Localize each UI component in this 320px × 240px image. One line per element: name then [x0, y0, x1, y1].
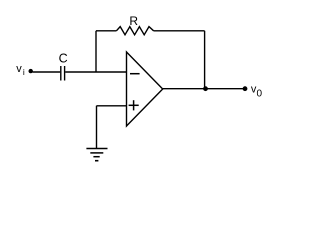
ground [86, 148, 107, 150]
node feedback junction [203, 86, 208, 91]
wire non-inverting input [97, 105, 127, 107]
wire capacitor to inverting input [65, 71, 126, 73]
wire feedback top left segment [96, 30, 116, 32]
op-amp U1 triangle [127, 52, 163, 126]
wire feedback left vertical [95, 31, 97, 72]
svg-text:i: i [23, 67, 25, 77]
wire feedback right vertical [204, 31, 206, 89]
wire to ground [96, 106, 98, 149]
wire output [163, 88, 245, 90]
svg-text:C: C [59, 52, 68, 66]
node vi input terminal [29, 69, 33, 73]
op-amp inverting pin minus sign [130, 73, 140, 75]
svg-text:R: R [129, 14, 138, 28]
svg-text:v: v [16, 63, 22, 75]
wire feedback top right segment [154, 30, 205, 32]
svg-text:0: 0 [257, 88, 263, 99]
resistor R [116, 27, 153, 35]
wire input to capacitor [33, 71, 61, 73]
node v0 output terminal [243, 86, 248, 91]
capacitor C [60, 66, 62, 81]
op-amp non-inverting pin plus sign [129, 104, 139, 106]
